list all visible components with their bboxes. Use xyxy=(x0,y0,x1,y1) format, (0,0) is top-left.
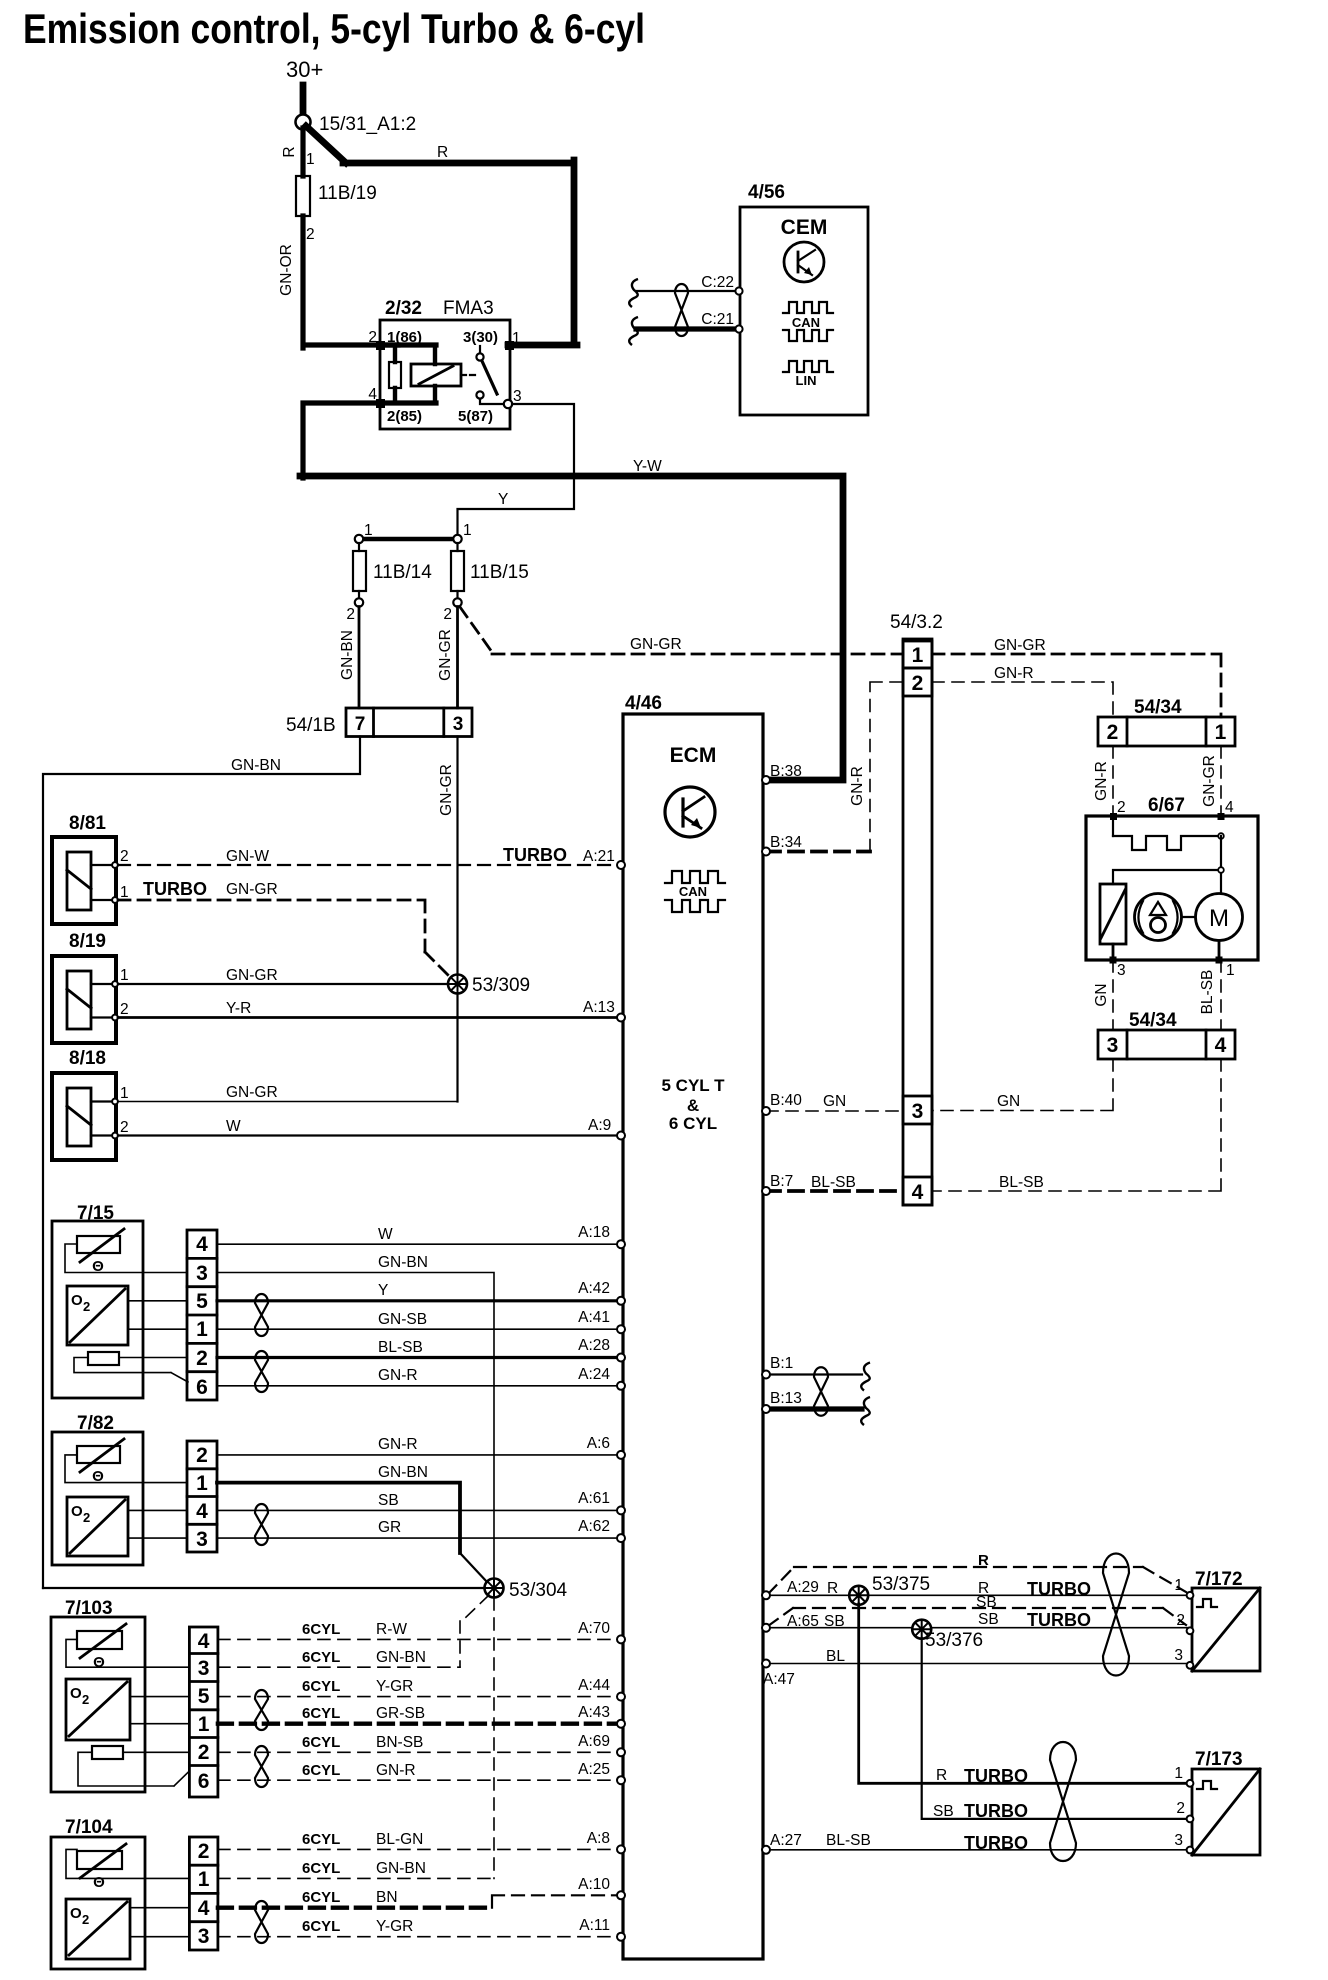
svg-text:6CYL: 6CYL xyxy=(302,1678,340,1695)
wire BN-SB dashed 7/103 pin2 to ECM A:69 xyxy=(218,1733,619,1752)
svg-text:7/173: 7/173 xyxy=(1195,1749,1243,1770)
wire GN-BN fuse 11B/14 to 54/1B pin 7 xyxy=(339,607,359,709)
svg-text:GN-R: GN-R xyxy=(376,1762,416,1779)
svg-text:A:6: A:6 xyxy=(587,1435,610,1452)
wire C:22 to CEM xyxy=(636,274,743,295)
svg-text:GR-SB: GR-SB xyxy=(376,1705,425,1722)
relay coil xyxy=(380,345,461,403)
ECM pin A:47 xyxy=(762,1660,770,1668)
svg-text:O: O xyxy=(70,1685,82,1702)
wire GN-GR 8/19 pin1 to junction 53/309 xyxy=(118,967,448,984)
fuse 11B/19 xyxy=(296,176,310,216)
twisted pair 7/172 wires xyxy=(1103,1554,1129,1676)
svg-text:2: 2 xyxy=(83,1510,90,1525)
ECM pin B:34 xyxy=(762,848,770,856)
6/67 heater zigzag xyxy=(1113,816,1224,850)
svg-text:3: 3 xyxy=(1174,1832,1183,1849)
svg-text:A:24: A:24 xyxy=(578,1366,610,1383)
svg-text:B:1: B:1 xyxy=(770,1355,793,1372)
svg-text:A:21: A:21 xyxy=(583,848,615,865)
svg-text:3: 3 xyxy=(513,388,522,405)
svg-text:6CYL: 6CYL xyxy=(302,1649,340,1666)
svg-text:A:70: A:70 xyxy=(578,1620,610,1637)
7/104 O2 wires xyxy=(130,1908,189,1937)
ECM terminals left edge xyxy=(617,861,625,1941)
break symbol on C:22 xyxy=(629,279,638,307)
svg-text:1: 1 xyxy=(912,644,924,667)
7/82 thermistor xyxy=(77,1439,124,1485)
svg-text:TURBO: TURBO xyxy=(503,845,567,865)
wire GN-BN dashed 7/103 pin3 to 53/304 drop xyxy=(218,1649,460,1667)
wire GN-R dashed 7/103 pin6 to ECM A:25 xyxy=(218,1761,619,1780)
svg-text:GN-BN: GN-BN xyxy=(376,1860,426,1877)
svg-text:53/304: 53/304 xyxy=(509,1580,568,1601)
relay actuator dashed link xyxy=(461,374,478,376)
svg-text:GN-BN: GN-BN xyxy=(378,1254,428,1271)
svg-text:6 CYL: 6 CYL xyxy=(669,1114,717,1133)
7/104 O2 cell xyxy=(66,1899,130,1959)
svg-text:1: 1 xyxy=(364,522,373,539)
svg-text:1: 1 xyxy=(198,1713,210,1736)
component 8/81 xyxy=(52,813,129,924)
svg-text:GN-R: GN-R xyxy=(378,1367,418,1384)
svg-text:A:11: A:11 xyxy=(579,1917,610,1934)
svg-text:3: 3 xyxy=(196,1528,208,1551)
wire GR-SB dashed 7/103 pin1 to ECM A:43 xyxy=(218,1704,619,1724)
connector 54/34 lower xyxy=(1098,1010,1235,1059)
svg-text:A:41: A:41 xyxy=(578,1309,610,1326)
ECM pin B:38 xyxy=(762,776,770,784)
svg-text:SB: SB xyxy=(824,1613,845,1630)
svg-text:A:47: A:47 xyxy=(763,1671,795,1688)
ECM pin A:29 xyxy=(762,1591,770,1599)
svg-text:A:18: A:18 xyxy=(578,1224,610,1241)
svg-text:Θ: Θ xyxy=(93,1654,105,1671)
svg-text:1: 1 xyxy=(196,1472,208,1495)
svg-text:W: W xyxy=(378,1226,393,1243)
svg-text:2: 2 xyxy=(198,1741,210,1764)
wire GN-R 7/82 pin2 to ECM A:6 xyxy=(217,1435,619,1455)
CEM LIN symbol xyxy=(783,361,833,388)
svg-text:2: 2 xyxy=(120,848,129,865)
svg-text:53/376: 53/376 xyxy=(925,1630,983,1651)
7/15 heater xyxy=(74,1352,188,1382)
svg-text:BL-SB: BL-SB xyxy=(826,1832,871,1849)
wire dashed 53/304 down to 6CYL rows xyxy=(460,1595,489,1667)
svg-text:GN-R: GN-R xyxy=(849,766,866,806)
svg-text:6CYL: 6CYL xyxy=(302,1831,340,1848)
svg-text:GN-R: GN-R xyxy=(994,665,1034,682)
svg-text:C:22: C:22 xyxy=(701,274,734,291)
twisted pair 7/103 pins 5/1 xyxy=(255,1690,268,1730)
wire R dashed bypass A:29 to 7/172 pin1 xyxy=(768,1552,1186,1594)
svg-text:Y-GR: Y-GR xyxy=(376,1678,413,1695)
wire GN-GR dashed 54/34 pin1 to 6/67 pin4 xyxy=(1201,746,1234,816)
wire GN-SB 7/15 pin1 to ECM A:41 xyxy=(217,1309,619,1329)
wire BL-SB dashed 54/34 pin4 to 54/3.2 pin4 xyxy=(932,1059,1221,1191)
svg-text:BN: BN xyxy=(376,1889,398,1906)
svg-text:5: 5 xyxy=(198,1685,210,1708)
wire pump to motor xyxy=(1182,916,1196,918)
svg-text:A:42: A:42 xyxy=(578,1280,610,1297)
wire BL-GN dashed 7/104 pin2 to ECM A:8 xyxy=(218,1830,619,1849)
svg-text:6/67: 6/67 xyxy=(1148,795,1185,816)
svg-text:2: 2 xyxy=(196,1347,208,1370)
sensor 7/15 box xyxy=(52,1203,143,1398)
7/103 thermistor xyxy=(77,1624,126,1671)
wire BL-SB A:27 to 7/173 pin3 xyxy=(766,1832,1188,1853)
svg-text:5: 5 xyxy=(196,1290,208,1313)
svg-text:2: 2 xyxy=(443,606,452,623)
svg-text:6: 6 xyxy=(198,1770,210,1793)
svg-text:8/18: 8/18 xyxy=(69,1048,106,1069)
svg-text:1: 1 xyxy=(198,1868,210,1891)
connector strip 7/104 xyxy=(189,1837,218,1950)
svg-text:ECM: ECM xyxy=(670,744,717,767)
svg-text:3: 3 xyxy=(1174,1647,1183,1664)
svg-text:2: 2 xyxy=(82,1912,89,1927)
svg-text:Y-R: Y-R xyxy=(226,1000,251,1017)
wire SB dashed bypass A:65 to 7/172 pin2 xyxy=(768,1594,1186,1626)
wire GN-BN from 54/1B pin 7 down left side xyxy=(43,737,360,1589)
svg-text:3: 3 xyxy=(1107,1034,1119,1057)
svg-text:GN-GR: GN-GR xyxy=(1201,755,1218,807)
svg-text:30+: 30+ xyxy=(286,57,323,82)
svg-text:1: 1 xyxy=(120,884,129,901)
svg-text:GN-GR: GN-GR xyxy=(630,636,682,653)
wire GN dashed 54/34 pin3 to 54/3.2 pin3 xyxy=(932,1059,1113,1111)
svg-text:2: 2 xyxy=(912,672,924,695)
svg-text:W: W xyxy=(226,1118,241,1135)
svg-text:54/34: 54/34 xyxy=(1134,697,1182,718)
junction 53/304 xyxy=(485,1579,504,1598)
svg-text:A:8: A:8 xyxy=(587,1830,610,1847)
svg-text:8/19: 8/19 xyxy=(69,931,106,952)
svg-text:4: 4 xyxy=(196,1233,208,1256)
svg-text:BL-SB: BL-SB xyxy=(999,1174,1044,1191)
svg-text:O: O xyxy=(70,1905,82,1922)
svg-text:GN-GR: GN-GR xyxy=(226,881,278,898)
6/67 bottom pins xyxy=(1110,941,1235,980)
svg-text:54/3.2: 54/3.2 xyxy=(890,612,943,633)
wire GN-R dashed 54/34 pin2 to 6/67 pin2 xyxy=(1093,746,1126,816)
svg-text:BL: BL xyxy=(826,1648,845,1665)
svg-text:4: 4 xyxy=(912,1181,924,1204)
svg-text:2: 2 xyxy=(1176,1800,1185,1817)
component 8/18 xyxy=(52,1048,129,1160)
svg-text:CAN: CAN xyxy=(792,315,820,330)
svg-text:4/46: 4/46 xyxy=(625,693,662,714)
svg-text:FMA3: FMA3 xyxy=(443,298,494,319)
svg-text:4: 4 xyxy=(198,1897,210,1920)
ECM pin B:7 xyxy=(762,1187,770,1195)
svg-text:54/34: 54/34 xyxy=(1129,1010,1177,1031)
svg-text:TURBO: TURBO xyxy=(1027,1610,1091,1630)
wire Y-R 8/19 pin2 to ECM A:13 xyxy=(118,999,619,1018)
wire W 8/18 pin2 to ECM A:9 xyxy=(118,1117,619,1136)
svg-text:GN-R: GN-R xyxy=(378,1436,418,1453)
wire B:13 CAN xyxy=(766,1390,862,1409)
svg-text:R: R xyxy=(281,146,298,157)
svg-text:R: R xyxy=(827,1580,838,1597)
wire GN-GR dashed from fuse 11B/15 to 54/3.2 pin 1 xyxy=(460,607,903,654)
svg-text:1: 1 xyxy=(306,151,315,168)
wire Y from relay pin3 to fuse 11B/15 xyxy=(458,404,575,535)
svg-text:6: 6 xyxy=(196,1376,208,1399)
break symbol on C:21 xyxy=(629,317,638,345)
svg-text:GN-GR: GN-GR xyxy=(994,637,1046,654)
relay switch xyxy=(476,346,512,408)
svg-text:1: 1 xyxy=(463,522,472,539)
svg-text:GN-BN: GN-BN xyxy=(378,1464,428,1481)
svg-text:2: 2 xyxy=(83,1299,90,1314)
wire Y-GR dashed 7/104 pin3 to ECM A:11 xyxy=(218,1917,619,1937)
wire SB 7/82 pin4 to ECM A:61 xyxy=(217,1490,619,1510)
svg-text:2: 2 xyxy=(198,1840,210,1863)
svg-text:R: R xyxy=(978,1552,989,1569)
svg-text:2/32: 2/32 xyxy=(385,298,422,319)
svg-text:A:69: A:69 xyxy=(578,1733,610,1750)
svg-text:TURBO: TURBO xyxy=(964,1766,1028,1786)
svg-text:2: 2 xyxy=(120,1001,129,1018)
wire R diagonal to relay pin 1 (thick top run) xyxy=(306,126,577,345)
svg-text:SB: SB xyxy=(933,1803,954,1820)
wire SB A:65 to 7/172 pin2 xyxy=(766,1610,1188,1630)
sensor 7/82 box xyxy=(52,1413,143,1565)
svg-text:11B/15: 11B/15 xyxy=(470,562,529,583)
svg-text:4: 4 xyxy=(1225,799,1234,816)
svg-text:B:34: B:34 xyxy=(770,834,802,851)
svg-text:3: 3 xyxy=(198,1657,210,1680)
svg-text:O: O xyxy=(71,1503,83,1520)
svg-text:3: 3 xyxy=(1117,962,1126,979)
svg-text:1: 1 xyxy=(1174,1577,1183,1594)
relay pin junction squares xyxy=(376,341,385,350)
wire BL-SB dashed 6/67 pin1 to 54/34 pin4 xyxy=(1199,960,1221,1030)
svg-text:3: 3 xyxy=(912,1100,924,1123)
svg-text:1: 1 xyxy=(120,1085,129,1102)
ECM pin B:40 xyxy=(762,1107,770,1115)
svg-text:GN-GR: GN-GR xyxy=(438,764,455,816)
ECM transistor symbol xyxy=(665,787,715,837)
svg-text:A:25: A:25 xyxy=(578,1761,610,1778)
7/103 thermistor wires xyxy=(66,1639,189,1667)
wire R-W dashed 7/103 pin4 to ECM A:70 xyxy=(218,1620,619,1639)
svg-text:2: 2 xyxy=(346,606,355,623)
svg-text:4: 4 xyxy=(1215,1034,1227,1057)
svg-text:4: 4 xyxy=(196,1500,208,1523)
twisted pair 7/15 pins 2/6 xyxy=(255,1351,268,1392)
connector strip 7/82 xyxy=(187,1441,217,1552)
svg-text:1: 1 xyxy=(196,1318,208,1341)
svg-text:A:9: A:9 xyxy=(588,1117,611,1134)
wire GN-GR dashed 8/81 pin1 to junction 53/309 xyxy=(118,879,451,978)
svg-text:A:27: A:27 xyxy=(770,1832,802,1849)
fuse 11B/15 xyxy=(443,522,528,623)
sensor 7/104 box xyxy=(51,1817,145,1969)
svg-text:Y: Y xyxy=(378,1282,388,1299)
wire GN-GR dashed 54/3.2 pin1 to 54/34 pin1 xyxy=(932,637,1221,717)
wire BL-SB 7/15 pin2 to ECM A:28 xyxy=(217,1337,619,1358)
svg-text:GN-GR: GN-GR xyxy=(226,967,278,984)
svg-text:TURBO: TURBO xyxy=(964,1833,1028,1853)
twisted pair 7/173 wires xyxy=(1050,1742,1076,1861)
valve 7/172 xyxy=(1174,1569,1260,1671)
svg-text:2: 2 xyxy=(1107,721,1119,744)
ECM pin A:65 xyxy=(762,1624,770,1632)
svg-text:A:28: A:28 xyxy=(578,1337,610,1354)
svg-text:2: 2 xyxy=(120,1119,129,1136)
wire GR 7/82 pin3 to ECM A:62 xyxy=(217,1518,619,1538)
svg-text:2: 2 xyxy=(1176,1612,1185,1629)
svg-text:BL-GN: BL-GN xyxy=(376,1831,423,1848)
wire GN-GR fuse 11B/15 to 54/1B pin 3 xyxy=(437,607,458,709)
wire Y-W long run to B:38 xyxy=(300,458,843,780)
ECU 4/56 CEM box xyxy=(740,182,868,415)
wire BN dashed 7/104 pin4 to ECM A:10 xyxy=(218,1876,619,1908)
7/15 O2 wires xyxy=(128,1301,187,1329)
svg-text:A:13: A:13 xyxy=(583,999,615,1016)
fuse 11B/14 xyxy=(346,522,432,623)
svg-text:7/104: 7/104 xyxy=(65,1817,113,1838)
wire W 7/15 pin4 to ECM A:18 xyxy=(217,1224,619,1244)
wire GN-BN 7/15 pin3 to junction 53/304 xyxy=(217,1254,494,1580)
svg-text:8/81: 8/81 xyxy=(69,813,106,834)
7/104 thermistor xyxy=(77,1844,126,1891)
svg-text:GN-BN: GN-BN xyxy=(376,1649,426,1666)
svg-text:GN: GN xyxy=(1093,983,1110,1006)
7/15 thermistor wires xyxy=(65,1244,187,1273)
svg-text:3: 3 xyxy=(453,714,464,735)
svg-text:SB: SB xyxy=(378,1492,399,1509)
svg-text:2: 2 xyxy=(368,329,377,346)
svg-text:7: 7 xyxy=(355,714,366,735)
svg-text:&: & xyxy=(687,1096,699,1115)
7/82 O2 cell xyxy=(67,1497,128,1556)
wire Y 7/15 pin5 to ECM A:42 xyxy=(217,1280,619,1301)
svg-text:A:44: A:44 xyxy=(578,1677,610,1694)
7/103 O2 wires xyxy=(130,1697,189,1724)
wire GN-W dashed 8/81 pin2 to ECM A:21 xyxy=(118,845,619,865)
svg-text:GN-R: GN-R xyxy=(1093,761,1110,801)
connector strip 7/15 xyxy=(187,1230,217,1400)
wire GN-GR 8/18 pin1 up to junction 53/309 xyxy=(118,1084,458,1102)
svg-text:6CYL: 6CYL xyxy=(302,1734,340,1751)
svg-text:1: 1 xyxy=(120,967,129,984)
svg-text:3(30): 3(30) xyxy=(463,329,498,346)
CEM transistor symbol xyxy=(784,242,824,282)
break symbol on B:1 xyxy=(861,1363,870,1391)
wire C:21 to CEM xyxy=(636,311,743,333)
svg-text:6CYL: 6CYL xyxy=(302,1889,340,1906)
svg-text:M: M xyxy=(1209,905,1229,932)
svg-text:Y-GR: Y-GR xyxy=(376,1918,413,1935)
wire Y-GR dashed 7/103 pin5 to ECM A:44 xyxy=(218,1677,619,1697)
svg-text:CEM: CEM xyxy=(781,216,828,239)
svg-text:2: 2 xyxy=(196,1444,208,1467)
svg-text:R-W: R-W xyxy=(376,1621,407,1638)
break symbol on B:13 xyxy=(861,1397,870,1425)
wire R A:29 to 7/172 pin1 xyxy=(766,1579,1188,1599)
svg-text:GR: GR xyxy=(378,1519,401,1536)
svg-text:11B/14: 11B/14 xyxy=(373,562,432,583)
twisted pair 7/104 pins 4/3 xyxy=(255,1901,268,1943)
wire BL-SB dashed ECM B:7 to 54/3.2 pin4 xyxy=(766,1173,903,1191)
wire GN dashed 6/67 pin3 to 54/34 pin3 xyxy=(1093,960,1113,1030)
valve 7/173 xyxy=(1174,1749,1260,1855)
svg-text:5(87): 5(87) xyxy=(458,408,493,425)
svg-text:6CYL: 6CYL xyxy=(302,1705,340,1722)
ECU 4/46 ECM box xyxy=(623,693,763,1959)
svg-text:Θ: Θ xyxy=(93,1874,105,1891)
svg-text:A:62: A:62 xyxy=(578,1518,610,1535)
svg-text:6CYL: 6CYL xyxy=(302,1918,340,1935)
svg-text:A:61: A:61 xyxy=(578,1490,610,1507)
svg-text:1: 1 xyxy=(1174,1765,1183,1782)
relay coil resistor xyxy=(389,362,401,388)
svg-text:1: 1 xyxy=(1226,962,1235,979)
svg-text:BL-SB: BL-SB xyxy=(378,1339,423,1356)
svg-text:4: 4 xyxy=(198,1630,210,1653)
twisted pair 7/103 pins 2/6 xyxy=(255,1746,268,1787)
svg-text:BN-SB: BN-SB xyxy=(376,1734,423,1751)
svg-text:GN: GN xyxy=(823,1093,846,1110)
svg-text:15/31_A1:2: 15/31_A1:2 xyxy=(319,114,416,135)
svg-text:SB: SB xyxy=(976,1594,997,1611)
svg-text:CAN: CAN xyxy=(679,884,707,899)
wire GN-OR from fuse to relay pin 2 xyxy=(303,216,398,348)
CEM CAN symbol xyxy=(783,302,833,341)
svg-text:A:29: A:29 xyxy=(787,1579,819,1596)
wire GN-R 7/15 pin6 to ECM A:24 xyxy=(217,1366,619,1386)
ECM CAN symbol xyxy=(665,871,725,912)
svg-text:BL-SB: BL-SB xyxy=(1199,970,1216,1015)
svg-text:3: 3 xyxy=(198,1925,210,1948)
svg-text:3: 3 xyxy=(196,1262,208,1285)
wire B:1 CAN xyxy=(766,1355,862,1375)
svg-text:Y-W: Y-W xyxy=(633,458,662,475)
ECM pin B:1 xyxy=(762,1371,770,1379)
node 15/31_A1:2 xyxy=(296,115,311,130)
twisted pair C:22/C:21 xyxy=(675,284,688,336)
svg-text:O: O xyxy=(71,1292,83,1309)
svg-text:A:43: A:43 xyxy=(578,1704,610,1721)
6/67 motor M xyxy=(1196,894,1243,941)
svg-text:LIN: LIN xyxy=(796,373,817,388)
svg-text:6CYL: 6CYL xyxy=(302,1860,340,1877)
svg-text:54/1B: 54/1B xyxy=(286,715,336,736)
wire dashed 53/304 down to 7/104 GN-BN xyxy=(493,1598,495,1878)
junction 53/375 xyxy=(849,1586,868,1605)
wire R 53/375 to 7/173 pin1 xyxy=(859,1604,1188,1786)
wire linking fuse pins 1 xyxy=(359,537,458,541)
svg-text:GN-SB: GN-SB xyxy=(378,1311,427,1328)
6/67 internal wires xyxy=(1113,836,1224,893)
svg-text:GN-GR: GN-GR xyxy=(437,629,454,681)
svg-text:R: R xyxy=(936,1767,947,1784)
svg-text:2: 2 xyxy=(306,226,315,243)
svg-text:2: 2 xyxy=(82,1692,89,1707)
svg-text:GN-BN: GN-BN xyxy=(231,757,281,774)
component 8/19 xyxy=(52,931,129,1043)
6/67 air pump symbol xyxy=(1135,894,1182,941)
7/15 O2 cell xyxy=(67,1286,128,1345)
wire GN dashed ECM B:40 to 54/3.2 pin3 xyxy=(766,1092,903,1111)
junction 53/309 xyxy=(448,975,467,994)
svg-text:GN: GN xyxy=(997,1093,1020,1110)
svg-text:Y: Y xyxy=(498,491,508,508)
junction 53/376 xyxy=(912,1620,931,1639)
